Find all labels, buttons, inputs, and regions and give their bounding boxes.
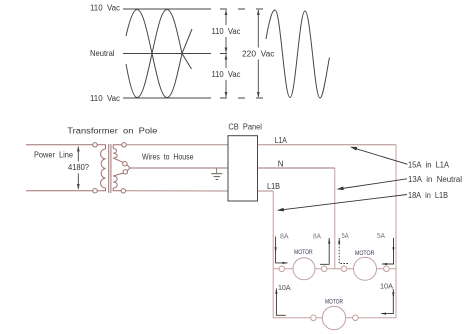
svg-text:15A in L1A: 15A in L1A [408, 161, 450, 170]
wire L1B feeder horizontal [258, 190, 274, 192]
svg-text:13A in Neutral: 13A in Neutral [408, 175, 462, 184]
wire power line bottom [26, 190, 93, 192]
node top-line 110Vac upper baseline [123, 8, 211, 10]
motor M1 110V left [293, 258, 315, 280]
waveform 220V combined sine [266, 10, 330, 98]
wire primary top lead [97, 145, 105, 149]
current arrow 8A down L1B into M1 [276, 237, 288, 263]
svg-text:N: N [278, 160, 284, 169]
CB panel U1 [228, 136, 258, 201]
wire L1A vertical drop [395, 145, 397, 318]
wire L1A feeder horizontal [258, 144, 397, 146]
leader 13A in Neutral [339, 179, 408, 189]
svg-text:5A: 5A [342, 233, 349, 240]
svg-text:8A: 8A [313, 233, 321, 240]
motor M2 110V right [354, 257, 377, 280]
node bottom-line 110Vac lower baseline [123, 97, 211, 99]
svg-text:8A: 8A [280, 233, 289, 240]
svg-text:Power Line: Power Line [34, 150, 74, 159]
wire power line top [26, 144, 93, 146]
svg-text:5A: 5A [377, 233, 385, 240]
svg-text:10A: 10A [278, 283, 291, 292]
wire secondary top lead [113, 145, 122, 149]
transformer T1 secondary coil upper half [113, 149, 117, 159]
dimension 110 Vac lower [225, 55, 227, 98]
svg-text:110 Vac: 110 Vac [212, 70, 241, 79]
transformer center-tap terminal upper [123, 162, 127, 166]
current arrow 5A up into N from M2 (dashed) [339, 238, 348, 264]
dimension 4180? line voltage [77, 147, 79, 190]
wire upper motor branch horizontal [273, 268, 396, 270]
transformer T1 secondary coil lower half [113, 176, 117, 188]
svg-text:Wires to House: Wires to House [142, 152, 194, 161]
svg-text:10A: 10A [380, 282, 393, 291]
svg-text:L1B: L1B [267, 182, 280, 191]
dimension 220 Vac full [257, 10, 259, 97]
svg-text:MOTOR: MOTOR [294, 249, 313, 256]
motor M3 terminal left [311, 315, 317, 321]
current arrow 8A up into N from M1 [320, 238, 329, 264]
svg-text:CB Panel: CB Panel [228, 123, 262, 132]
transformer T1 primary coil [101, 149, 106, 188]
wire primary bottom lead [97, 188, 105, 191]
wire L1A transformer to CB panel [126, 144, 228, 146]
transformer secondary terminal L1B [121, 189, 125, 193]
wire N transformer to CB panel [130, 167, 228, 169]
svg-text:220 Vac: 220 Vac [242, 50, 275, 59]
ground symbol on neutral [216, 168, 218, 173]
wire secondary center-tap upper lead [113, 158, 123, 162]
svg-text:4180?: 4180? [68, 163, 90, 172]
transformer T1 core [108, 144, 110, 193]
wire L1B vertical drop [272, 191, 274, 318]
wire center-tap junction to N [127, 165, 131, 171]
transformer T1 primary terminal bottom [93, 189, 97, 193]
motor M2 terminal left [341, 266, 347, 272]
leader 18A in L1B [279, 195, 407, 211]
transformer T1 primary terminal top [93, 143, 97, 147]
waveform phase-B sine [126, 10, 192, 98]
waveform phase-A sine [126, 10, 192, 98]
svg-text:18A in L1B: 18A in L1B [408, 191, 448, 200]
motor M1 terminal left [279, 266, 285, 272]
svg-text:110 Vac: 110 Vac [212, 27, 241, 36]
wire N feeder horizontal [258, 167, 335, 169]
current arrow 10A down L1A into M3 [382, 289, 394, 314]
svg-text:Transformer on Pole: Transformer on Pole [67, 127, 158, 136]
leader 15A in L1A [352, 147, 408, 164]
svg-text:Neutral: Neutral [90, 49, 115, 58]
svg-text:MOTOR: MOTOR [325, 299, 343, 306]
transformer center-tap terminal lower [123, 170, 127, 174]
svg-text:110 Vac: 110 Vac [90, 94, 120, 103]
wire secondary center-tap lower lead [113, 173, 123, 176]
svg-text:MOTOR: MOTOR [355, 250, 374, 257]
motor M1 terminal right [322, 266, 328, 272]
wire bottom 220V motor branch [273, 317, 396, 319]
svg-text:L1A: L1A [275, 136, 288, 145]
transformer secondary terminal L1A [122, 143, 126, 147]
motor M3 terminal right [353, 315, 359, 321]
dimension 110 Vac upper [225, 10, 227, 53]
svg-text:110 Vac: 110 Vac [90, 3, 120, 12]
wire secondary bottom lead [113, 188, 121, 191]
wire L1B transformer to CB panel [126, 190, 229, 192]
motor M2 terminal right [384, 266, 390, 272]
motor M3 220V bottom [322, 306, 345, 329]
node neutral baseline [123, 53, 211, 55]
wire N vertical drop [334, 168, 336, 269]
current arrow 10A up L1B from M3 [276, 289, 285, 316]
current arrow 5A down L1A into M2 [382, 238, 394, 264]
